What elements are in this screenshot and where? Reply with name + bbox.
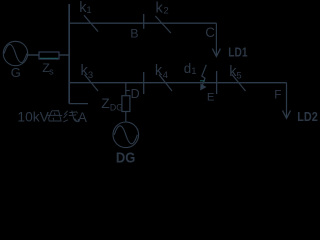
bus 10kV vertical line: [68, 4, 70, 104]
svg-text:LD2: LD2: [297, 109, 318, 124]
wire Zs to bus: [59, 54, 69, 56]
switch k2 slash: [155, 16, 171, 33]
svg-text:k: k: [156, 1, 164, 17]
svg-text:Z: Z: [101, 96, 109, 111]
wire G to Zs: [28, 54, 39, 56]
node tick on line1: [143, 14, 145, 29]
arrowhead fault d1: [200, 84, 206, 91]
switch k3 slash: [85, 75, 99, 92]
svg-text:A: A: [78, 110, 87, 125]
generator DG sine wave: [114, 126, 137, 144]
switch k4 slash: [159, 75, 172, 92]
node D tick: [126, 90, 130, 92]
svg-text:DG: DG: [110, 103, 123, 113]
svg-text:2: 2: [163, 6, 168, 17]
wire LD1 drop: [215, 23, 217, 55]
svg-text:G: G: [11, 65, 21, 80]
wire feeder line 2: [69, 82, 286, 84]
resistor ZDG box: [122, 96, 130, 112]
switch k1 slash: [84, 15, 98, 31]
svg-text:DG: DG: [116, 150, 135, 166]
generator DG circle: [113, 122, 139, 148]
generator G sine wave: [4, 45, 27, 63]
hanzi mu (mother): [47, 111, 62, 121]
svg-text:10kV: 10kV: [17, 110, 49, 125]
svg-text:3: 3: [88, 70, 93, 81]
svg-text:1: 1: [86, 5, 91, 16]
arrowhead LD1: [212, 49, 220, 57]
resistor Zs box: [39, 52, 59, 59]
resistor Zs teal bottom edge: [40, 57, 58, 59]
svg-text:D: D: [131, 87, 140, 101]
svg-text:E: E: [207, 92, 215, 104]
svg-text:B: B: [130, 26, 138, 40]
wire ZDG to DG circle: [125, 112, 127, 123]
wire DG branch vertical: [125, 83, 127, 96]
svg-text:d: d: [184, 61, 191, 76]
fault d1 teal jog accent: [200, 80, 205, 82]
svg-text:k: k: [155, 63, 163, 79]
node tick on line2 right: [216, 71, 218, 94]
svg-text:5: 5: [236, 71, 241, 82]
bus bottom foot wire: [69, 103, 88, 105]
svg-text:F: F: [274, 88, 281, 102]
generator G circle: [3, 41, 27, 65]
wire feeder line 1: [69, 22, 216, 24]
node tick on line2 left: [143, 72, 145, 94]
svg-text:4: 4: [163, 70, 168, 81]
wire LD2 drop: [286, 83, 288, 118]
fault d1 lightning bolt: [202, 65, 207, 88]
hanzi xian (wire): [63, 111, 78, 122]
arrowhead LD2: [283, 111, 291, 119]
svg-text:1: 1: [191, 66, 196, 77]
svg-text:LD1: LD1: [228, 44, 247, 59]
svg-text:C: C: [205, 25, 215, 40]
switch k5 slash: [232, 75, 246, 92]
svg-text:s: s: [49, 66, 54, 76]
